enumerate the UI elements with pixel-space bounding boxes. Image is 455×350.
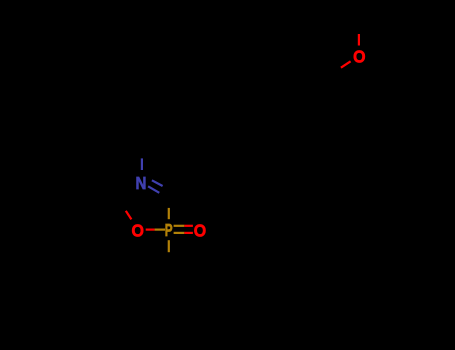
svg-text:N: N bbox=[135, 173, 146, 194]
svg-text:P: P bbox=[165, 221, 173, 241]
svg-text:O: O bbox=[131, 221, 143, 241]
svg-text:O: O bbox=[194, 221, 206, 241]
svg-text:O: O bbox=[353, 47, 365, 67]
